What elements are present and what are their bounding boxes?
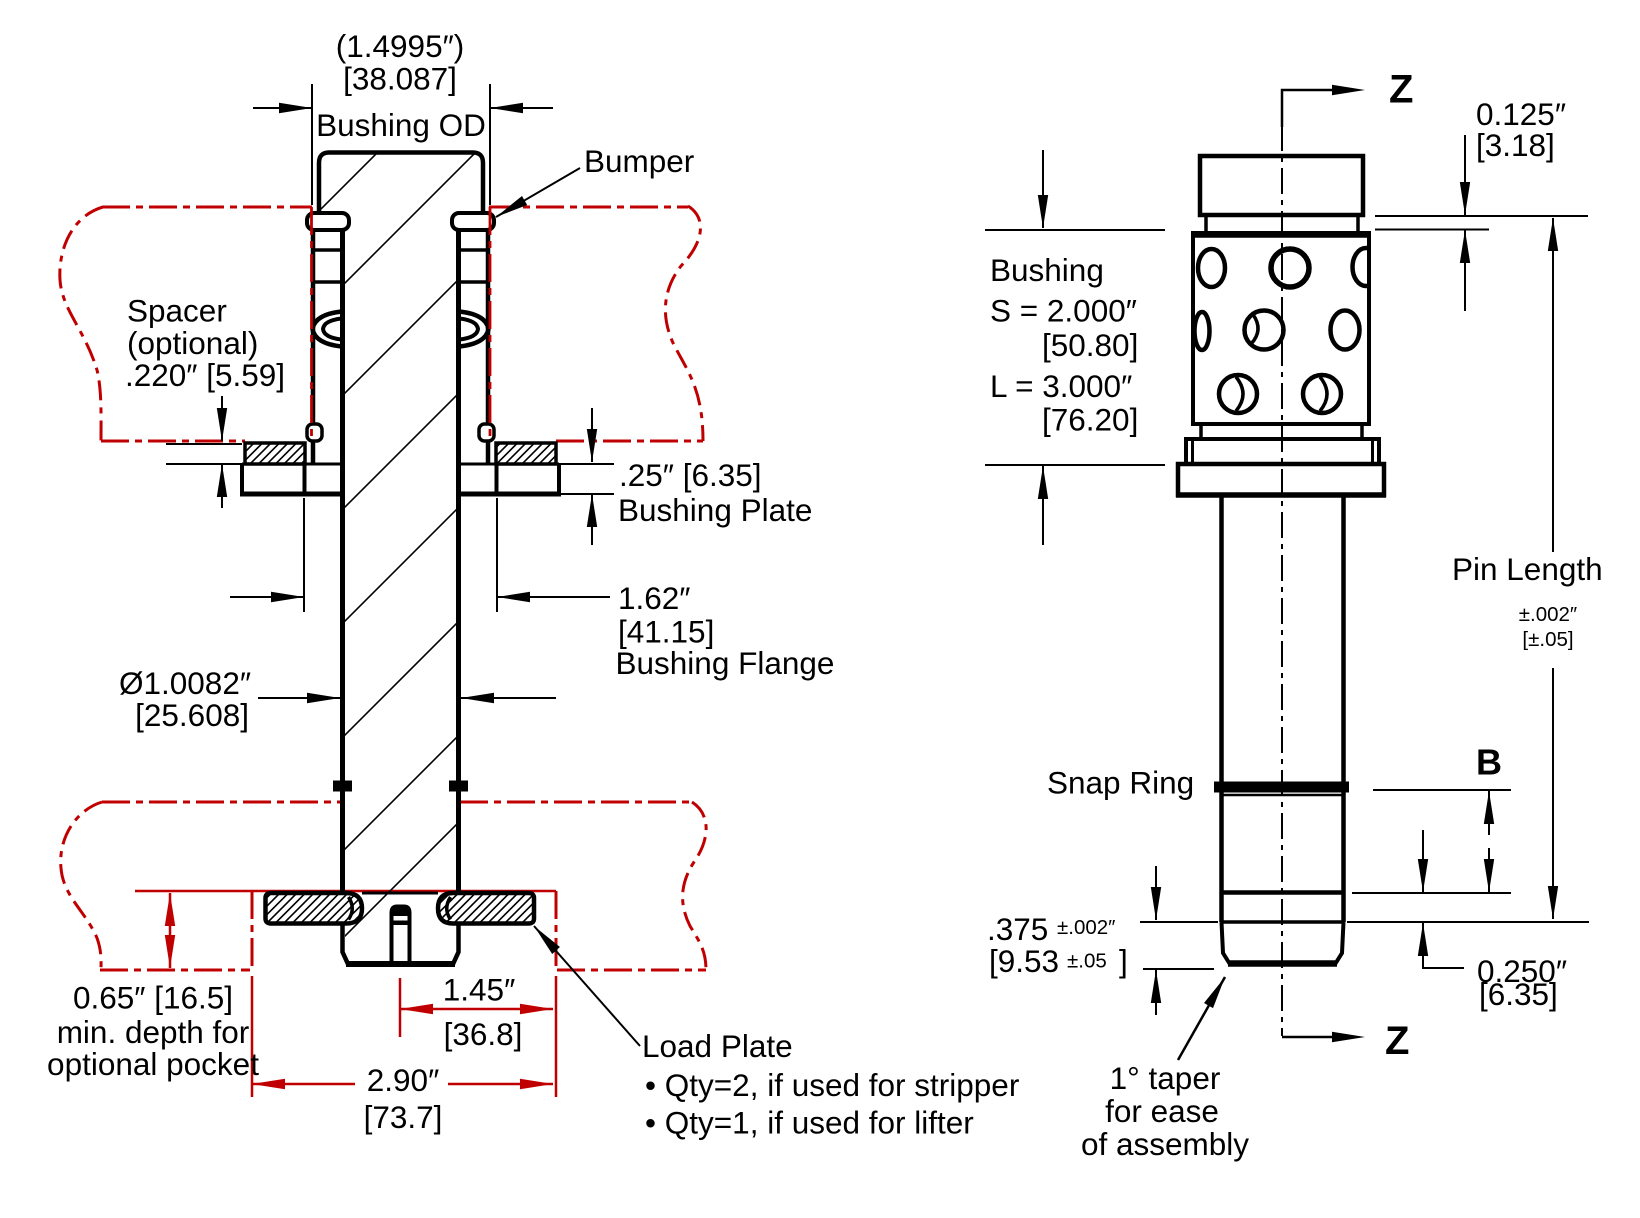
svg-text:Bushing Flange: Bushing Flange	[616, 645, 835, 681]
snap ring tick left	[333, 781, 352, 792]
Bushing OD dim lines	[253, 107, 553, 109]
bushing S/L dim	[985, 230, 1165, 465]
red extension lines for 2.90 dim	[252, 976, 556, 1097]
pin bottom ref line	[1140, 921, 1589, 923]
B dim	[1373, 789, 1511, 791]
snap ring tick right	[449, 781, 468, 792]
dia 1.0082 dim	[258, 697, 556, 699]
pin top cap	[1200, 156, 1363, 215]
svg-text:[9.53: [9.53	[989, 943, 1059, 979]
set screw: filled head dome + slot bar	[390, 905, 412, 962]
spacer block left (hatched)	[245, 443, 305, 464]
bumper tab left	[307, 213, 349, 230]
wall section line y282	[311, 280, 490, 284]
svg-text:for ease: for ease	[1105, 1093, 1219, 1129]
upper stripper plate (red dash-dot)	[101, 207, 703, 441]
taper start lines	[1221, 890, 1344, 895]
red center extension for 1.45 dim	[399, 978, 402, 1037]
svg-text:[6.35]: [6.35]	[1479, 976, 1558, 1012]
upper plate wavy break edges	[60, 206, 703, 441]
balls on bushing	[1195, 248, 1380, 413]
svg-text:• Qty=2, if used for stripper: • Qty=2, if used for stripper	[645, 1067, 1019, 1103]
bushing plate + flange left	[242, 463, 343, 466]
svg-text:Bushing: Bushing	[990, 252, 1104, 288]
svg-text:Bushing OD: Bushing OD	[316, 107, 486, 143]
svg-text:• Qty=1, if used for lifter: • Qty=1, if used for lifter	[645, 1105, 974, 1141]
wall section line y250	[311, 248, 490, 252]
svg-text:1.62″: 1.62″	[618, 580, 690, 616]
svg-text:.25″ [6.35]: .25″ [6.35]	[619, 457, 762, 493]
Bumper leader	[496, 168, 580, 217]
snap ring	[1214, 782, 1349, 793]
svg-text:S = 2.000″: S = 2.000″	[990, 293, 1137, 329]
svg-text:[50.80]: [50.80]	[1042, 327, 1138, 363]
svg-text:[±.05]: [±.05]	[1522, 628, 1573, 651]
svg-text:.220″ [5.59]: .220″ [5.59]	[125, 357, 285, 393]
svg-text:[36.8]: [36.8]	[444, 1016, 523, 1052]
collar	[1186, 439, 1379, 464]
pin step edge at load plate	[362, 892, 438, 895]
svg-text:±.05: ±.05	[1067, 950, 1107, 973]
svg-text:Pin Length: Pin Length	[1452, 551, 1603, 587]
svg-text:Load Plate: Load Plate	[642, 1028, 793, 1064]
svg-text:2.90″: 2.90″	[367, 1062, 439, 1098]
svg-text:1.45″: 1.45″	[443, 972, 515, 1008]
1.62 flange dim	[304, 498, 497, 612]
Z top axis	[1282, 90, 1348, 127]
0.250 dim	[1423, 830, 1464, 968]
load plate block right (hatched)	[438, 893, 534, 924]
wall foot tab right	[479, 424, 494, 441]
1.45 dimension line (red)	[400, 1008, 553, 1011]
svg-text:Z: Z	[1385, 1019, 1409, 1063]
svg-text:B: B	[1476, 742, 1502, 783]
bushing wall outer left	[311, 230, 316, 464]
ball lens left	[313, 312, 342, 347]
neck under cap	[1206, 215, 1358, 231]
svg-text:L = 3.000″: L = 3.000″	[990, 368, 1132, 404]
lower die plate (red dash-dot)	[100, 802, 706, 970]
svg-text:]: ]	[1119, 943, 1128, 979]
Spacer .220 dim	[166, 444, 242, 464]
svg-text:optional pocket: optional pocket	[47, 1046, 259, 1082]
spacer block right (hatched)	[496, 443, 556, 464]
svg-text:(optional): (optional)	[127, 325, 258, 361]
svg-text:0.65″ [16.5]: 0.65″ [16.5]	[73, 980, 233, 1016]
bushing body	[1193, 233, 1369, 424]
centerline	[1281, 125, 1283, 1036]
svg-text:min. depth for: min. depth for	[57, 1014, 250, 1050]
svg-text:Ø1.0082″: Ø1.0082″	[119, 665, 251, 701]
load plate block left (hatched)	[266, 893, 363, 924]
.375 dim arrows	[1155, 866, 1157, 1015]
0.125 dim	[1375, 215, 1588, 217]
svg-text:[73.7]: [73.7]	[364, 1099, 443, 1135]
svg-text:1° taper: 1° taper	[1110, 1060, 1221, 1096]
red plate bore edges (dash-dot, drawn over bushing)	[312, 207, 491, 441]
bushing bottom neck	[1201, 424, 1362, 439]
svg-text:[3.18]: [3.18]	[1476, 127, 1555, 163]
pin length dim	[1552, 218, 1554, 919]
pocket top line (red solid)	[135, 890, 556, 893]
svg-text:[38.087]: [38.087]	[343, 61, 457, 97]
svg-text:[76.20]: [76.20]	[1042, 402, 1138, 438]
bushing plate + flange right	[458, 463, 559, 466]
pin + head section hatch (45deg sparse)	[0, 0, 1281, 1218]
0.65 depth dimension (red)	[169, 893, 172, 968]
pin outer / bushing bore right	[456, 230, 461, 891]
Bushing OD extension lines	[312, 84, 490, 205]
1 deg taper leader	[1178, 977, 1225, 1060]
load plate leader	[534, 926, 640, 1046]
wall foot tab left	[307, 424, 322, 441]
svg-text:Bumper: Bumper	[584, 143, 694, 179]
bumper tab right	[452, 213, 494, 230]
svg-text:(1.4995″): (1.4995″)	[336, 28, 464, 64]
Z bottom axis	[1282, 1036, 1348, 1039]
svg-text:of assembly: of assembly	[1081, 1126, 1249, 1162]
pin outer / bushing bore left	[340, 230, 345, 891]
svg-text:.375: .375	[987, 911, 1048, 947]
tapered tip walls	[1222, 922, 1344, 964]
svg-text:Bushing Plate: Bushing Plate	[618, 492, 812, 528]
svg-text:Z: Z	[1389, 68, 1413, 112]
svg-text:±.002″: ±.002″	[1057, 916, 1115, 939]
ball lens right	[460, 312, 489, 347]
bushing head	[319, 153, 483, 216]
svg-text:[25.608]: [25.608]	[135, 697, 249, 733]
.25 bushing plate dim	[559, 464, 614, 494]
flange	[1178, 464, 1384, 495]
lower plate wavy break edges	[61, 802, 706, 970]
svg-text:±.002″: ±.002″	[1519, 603, 1577, 626]
pin bottom	[343, 924, 459, 965]
bushing wall outer right	[486, 230, 491, 464]
svg-text:Spacer: Spacer	[127, 293, 227, 329]
pin shaft	[1222, 495, 1344, 922]
2.90 dimension line (red)	[252, 1083, 553, 1086]
svg-text:Snap Ring: Snap Ring	[1047, 765, 1194, 801]
